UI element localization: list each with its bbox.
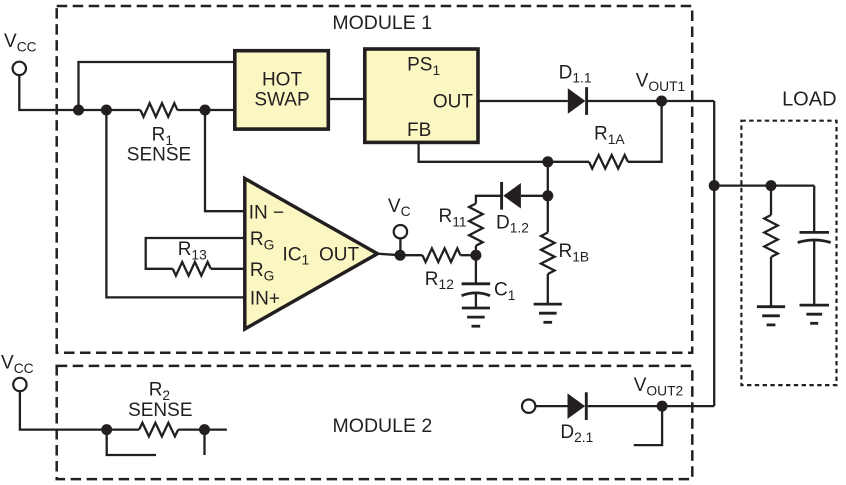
label R11 (439, 206, 467, 229)
svg-text:C1: C1 (494, 280, 515, 303)
wire R11 to output node (475, 246, 477, 256)
pin RG (top) of IC1 (250, 229, 274, 252)
node junction FB/R1A/R1B (542, 156, 553, 167)
wire R1A to VOUT1 node (628, 101, 662, 162)
wire R12 to C1 node (461, 254, 476, 256)
module 1 boundary (57, 6, 693, 353)
pin IN- of IC1 (249, 202, 284, 223)
label VOUT1 (636, 71, 685, 94)
resistor R2 (139, 423, 178, 437)
label R2 SENSE (128, 380, 192, 421)
node junction R2 right (199, 424, 210, 435)
label R12 (425, 269, 454, 292)
label VOUT2 (634, 375, 683, 398)
resistor R1 (140, 103, 177, 117)
node junction R1/IN- branch (200, 105, 211, 116)
svg-text:D1.2: D1.2 (496, 212, 529, 235)
svg-text:MODULE 2: MODULE 2 (333, 415, 433, 437)
svg-text:VOUT1: VOUT1 (636, 71, 685, 94)
diode D1.1 (568, 87, 587, 115)
diode D1.2 (502, 182, 521, 210)
capacitor load (798, 186, 831, 306)
wire VCC2 rail (20, 391, 227, 429)
label MODULE 1 (332, 12, 432, 34)
ground under C1 (462, 308, 490, 326)
wire D1.2 row (476, 196, 548, 204)
wire IN+ to VCC rail (106, 110, 246, 297)
capacitor C1 (462, 255, 491, 308)
label D2.1 (560, 422, 593, 445)
svg-text:R11: R11 (439, 206, 467, 229)
terminal VCC (module 1 input) (13, 62, 26, 75)
diode D2.1 (568, 392, 587, 420)
terminal VCC (module 2 input) (13, 378, 26, 391)
node junction load resistor (766, 180, 777, 191)
wire R1B branch from FB node (547, 162, 549, 304)
label MODULE 2 (333, 415, 433, 437)
label C1 (494, 280, 515, 303)
resistor R13 (173, 262, 211, 276)
wire IN- to R1 right node (205, 110, 246, 211)
label VCC (4, 31, 37, 54)
ground under load resistor (757, 307, 785, 325)
pin RG (bottom) of IC1 (250, 260, 274, 283)
block PS1 (365, 49, 478, 142)
wire PS1 OUT to D1.1 (478, 100, 568, 102)
resistor R1B (541, 233, 555, 275)
svg-text:D2.1: D2.1 (560, 422, 593, 445)
label VC (388, 196, 411, 219)
wire D2.1 to VOUT2 node (588, 405, 715, 407)
svg-text:SWAP: SWAP (254, 89, 309, 110)
wire IC1 output to R12 (378, 254, 423, 256)
node junction VCC/upper branch (73, 105, 84, 116)
svg-text:VC: VC (388, 196, 411, 219)
ground under R1B (534, 304, 562, 322)
svg-text:R1B: R1B (559, 241, 590, 264)
terminal VC (394, 225, 407, 238)
svg-text:FB: FB (407, 120, 431, 141)
node VOUT2 (657, 401, 668, 412)
pin OUT of PS1 (433, 92, 474, 113)
svg-text:R12: R12 (425, 269, 454, 292)
wire VCC rail to HOT SWAP (19, 75, 235, 110)
wire VOUT2 return stub (634, 406, 662, 445)
svg-text:VCC: VCC (4, 31, 37, 54)
svg-text:LOAD: LOAD (782, 88, 836, 110)
pin IN+ of IC1 (250, 289, 280, 310)
svg-text:IN+: IN+ (250, 289, 280, 310)
svg-text:MODULE 1: MODULE 1 (332, 12, 432, 34)
terminal D2.1 input (522, 400, 535, 413)
wire D1.1 to VOUT1 node (588, 100, 714, 102)
wire PS1 FB branch (419, 142, 589, 161)
label LOAD (782, 88, 836, 110)
svg-text:IN −: IN − (249, 202, 284, 223)
resistor load (764, 186, 778, 307)
svg-text:SENSE: SENSE (128, 400, 192, 421)
wire upper branch to HOT SWAP (79, 62, 235, 110)
node junction VCC/IN+ branch (101, 105, 112, 116)
svg-text:VOUT2: VOUT2 (634, 375, 683, 398)
wire R2 right sense stub (203, 430, 205, 455)
op-amp IC1 (245, 179, 378, 330)
label R1 SENSE (127, 125, 191, 166)
node VOUT1 (656, 96, 667, 107)
svg-text:VCC: VCC (1, 353, 34, 376)
svg-text:R13: R13 (178, 239, 207, 262)
pin FB of PS1 (407, 120, 431, 141)
wire VC to output node (399, 238, 401, 255)
label R1B (559, 241, 590, 264)
label VCC (module 2) (1, 353, 34, 376)
node junction R2 left (101, 424, 112, 435)
label D1.2 (496, 212, 529, 235)
wire VOUT1 down to VOUT2 rail (713, 101, 715, 406)
wire terminal to D2.1 (535, 405, 567, 407)
resistor R12 (422, 248, 460, 262)
block HOT SWAP (235, 51, 328, 129)
node junction R11/R12/C1 (470, 250, 481, 261)
node junction D1.2 anode (542, 190, 553, 201)
resistor R1A (589, 155, 628, 169)
label R13 (178, 239, 207, 262)
node IC1 output (395, 250, 406, 261)
wire HOT SWAP to PS1 (328, 98, 365, 100)
node junction load rail (709, 180, 720, 191)
wire load rail (714, 184, 814, 186)
svg-text:HOT: HOT (262, 70, 303, 91)
svg-text:R1A: R1A (594, 124, 625, 147)
wire RG loop (146, 238, 246, 269)
ground under load capacitor (800, 305, 830, 323)
svg-text:OUT: OUT (433, 92, 474, 113)
svg-text:IC1 OUT: IC1 OUT (283, 244, 360, 267)
resistor R11 (469, 204, 483, 246)
wire R2 left sense stub (107, 430, 156, 455)
load boundary (741, 121, 836, 385)
label R1A (594, 124, 625, 147)
label D1.1 (559, 62, 592, 85)
svg-text:SENSE: SENSE (127, 144, 191, 165)
svg-text:D1.1: D1.1 (559, 62, 592, 85)
module 2 boundary (57, 366, 693, 479)
